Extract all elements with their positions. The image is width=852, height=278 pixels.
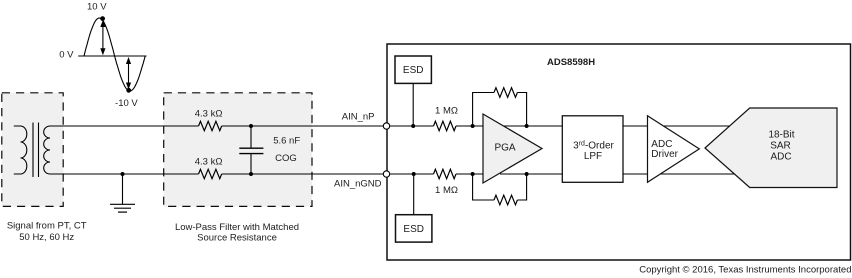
amplitude arrow negative lobe xyxy=(126,57,131,90)
svg-text:LPF: LPF xyxy=(584,151,602,162)
wire: AIN_nGND terminal to R4 xyxy=(390,173,434,175)
svg-text:Source Resistance: Source Resistance xyxy=(197,233,277,244)
transformer core xyxy=(32,123,34,178)
wire: ESD bottom stem xyxy=(413,174,415,215)
wire: PGA bottom output to LPF xyxy=(500,173,562,175)
filter block U2 3rd-Order LPF xyxy=(562,116,623,183)
wire: top rail from filter resistor to AIN_nP terminal xyxy=(222,125,384,127)
resistor R2 4.3 kOhm (bottom) xyxy=(199,169,222,178)
wire: top rail from transformer to filter resistor xyxy=(50,125,199,127)
resistor R6 feedback (bottom) xyxy=(494,195,517,205)
resistor R3 1 MOhm (top) xyxy=(434,121,457,130)
svg-text:AIN_nGND: AIN_nGND xyxy=(334,178,382,189)
node: bottom feedback output junction xyxy=(525,172,529,176)
sine waveform xyxy=(84,18,145,91)
svg-text:ADS8598H: ADS8598H xyxy=(547,57,595,68)
wire: R3 to PGA positive input xyxy=(456,125,484,127)
svg-text:Signal from PT, CT: Signal from PT, CT xyxy=(7,221,87,232)
svg-text:AIN_nP: AIN_nP xyxy=(342,112,375,123)
wire: R4 to PGA negative input xyxy=(456,173,484,175)
ESD cell top box xyxy=(395,56,431,83)
node: capacitor top junction xyxy=(249,124,253,128)
svg-text:PGA: PGA xyxy=(494,143,515,154)
peak dot on sine positive lobe xyxy=(100,16,105,21)
wire: bottom rail from transformer to filter resistor xyxy=(50,173,199,175)
svg-text:Low-Pass Filter with Matched: Low-Pass Filter with Matched xyxy=(175,222,299,233)
wire: ADC driver top output to SAR ADC xyxy=(660,125,734,127)
ground xyxy=(110,204,135,212)
resistor R1 4.3 kOhm (top) xyxy=(199,121,222,130)
wire: bottom feedback loop xyxy=(473,174,527,200)
wire: AIN_nP terminal to R3 xyxy=(390,125,434,127)
low-pass filter dashed box xyxy=(164,93,312,207)
wire: bottom rail from filter resistor to AIN_nGND terminal xyxy=(222,173,384,175)
node: top feedback input junction xyxy=(471,124,475,128)
svg-text:ADC: ADC xyxy=(770,151,791,162)
svg-text:50 Hz, 60 Hz: 50 Hz, 60 Hz xyxy=(19,232,74,243)
capacitor C1 5.6 nF xyxy=(239,126,263,174)
node: bottom feedback input junction xyxy=(471,172,475,176)
amplitude arrow positive lobe xyxy=(100,20,105,55)
svg-text:-10 V: -10 V xyxy=(115,98,138,109)
ADC block U4 18-Bit SAR ADC xyxy=(705,108,837,188)
svg-text:COG: COG xyxy=(275,153,297,164)
ADS8598H device box xyxy=(387,44,851,260)
svg-text:5.6 nF: 5.6 nF xyxy=(273,136,300,147)
svg-text:4.3 kΩ: 4.3 kΩ xyxy=(195,108,223,119)
node: ESD bottom junction xyxy=(412,172,416,176)
wire: ADC driver bottom output to SAR ADC xyxy=(658,173,736,175)
node: top feedback output junction xyxy=(525,124,529,128)
transformer secondary winding xyxy=(44,126,50,174)
amplifier U3 ADC Driver xyxy=(648,116,700,183)
resistor R4 1 MOhm (bottom) xyxy=(434,169,457,178)
svg-text:18-Bit: 18-Bit xyxy=(768,130,794,141)
svg-text:SAR: SAR xyxy=(770,141,791,152)
svg-text:10 V: 10 V xyxy=(87,2,107,13)
node: capacitor bottom junction xyxy=(249,172,253,176)
wire: PGA top output to LPF xyxy=(500,125,562,127)
transformer primary winding xyxy=(14,126,27,174)
wire: LPF bottom output to ADC driver xyxy=(623,173,649,175)
svg-text:Driver: Driver xyxy=(651,149,678,160)
node: ground tap junction xyxy=(121,172,125,176)
wire: top feedback loop xyxy=(473,93,527,127)
svg-text:ESD: ESD xyxy=(403,65,424,76)
trough dot on sine negative lobe xyxy=(126,88,131,93)
node: ESD top junction xyxy=(411,124,415,128)
op-amp U1 PGA xyxy=(483,114,542,183)
terminal node AIN_nGND (open circle) xyxy=(383,171,389,177)
input source dashed box xyxy=(2,93,63,207)
svg-text:ESD: ESD xyxy=(403,224,424,235)
svg-text:4.3 kΩ: 4.3 kΩ xyxy=(195,156,223,167)
wire: LPF top output to ADC driver xyxy=(623,125,649,127)
resistor R5 feedback (top) xyxy=(494,88,517,98)
sine wave axis xyxy=(78,55,146,57)
svg-text:Copyright © 2016, Texas Instru: Copyright © 2016, Texas Instruments Inco… xyxy=(639,265,851,276)
wire: ground stem xyxy=(122,174,124,204)
wire: ESD top stem xyxy=(412,84,414,127)
terminal node AIN_nP (open circle) xyxy=(383,123,389,129)
ESD cell bottom box xyxy=(396,215,432,242)
svg-text:0 V: 0 V xyxy=(59,50,74,61)
svg-text:1 MΩ: 1 MΩ xyxy=(435,106,458,117)
svg-text:1 MΩ: 1 MΩ xyxy=(435,185,458,196)
transformer T1 xyxy=(14,123,50,178)
